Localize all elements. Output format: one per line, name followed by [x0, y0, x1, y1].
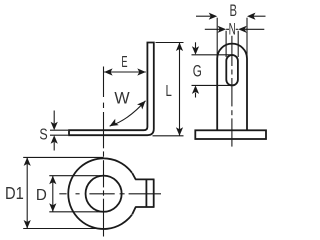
L bottom extension line — [153, 135, 184, 137]
B right extension line — [246, 18, 248, 57]
svg-text:E: E — [121, 52, 127, 70]
G lower arrow (pointing up) — [195, 93, 197, 98]
L top arrowhead — [176, 43, 183, 52]
S lower arrow (pointing up) — [53, 142, 55, 151]
W lower arrowhead — [110, 119, 119, 126]
N left arrow — [205, 28, 220, 30]
tab bottom edge — [135, 206, 154, 208]
dimension E line — [104, 71, 146, 73]
B left extension line — [216, 18, 218, 57]
D1 bottom extension line — [23, 228, 103, 230]
N right extension line — [237, 31, 239, 57]
G bottom extension line — [192, 84, 234, 86]
E left arrowhead — [104, 68, 113, 75]
D top arrowhead — [49, 176, 56, 185]
S upper arrow (pointing down) — [53, 111, 55, 124]
N line stubs — [226, 28, 229, 30]
bracket outline (L profile) — [69, 43, 154, 136]
svg-text:S: S — [39, 126, 47, 144]
tab outline (rounded top) — [217, 44, 247, 131]
D bottom arrowhead — [49, 203, 56, 212]
N right arrow — [245, 28, 264, 30]
bent tab near edge — [145, 179, 147, 207]
D1 top arrowhead — [24, 157, 31, 166]
centerline (vertical, through side view and top view) — [103, 67, 105, 237]
bent tab end edge — [153, 179, 155, 207]
B left arrow — [196, 15, 211, 17]
top chamfer to tab — [132, 173, 136, 179]
svg-text:W: W — [114, 88, 130, 107]
D1 bottom arrowhead — [24, 220, 31, 229]
D top extension line — [49, 175, 103, 177]
L top extension line — [156, 42, 184, 44]
horizontal centerline — [59, 193, 161, 195]
W curved leader — [110, 101, 146, 126]
slot (oblong hole) — [226, 55, 238, 85]
D dimension line — [52, 176, 54, 212]
G upper arrow (pointing down) — [195, 42, 197, 48]
S bottom extension line — [50, 134, 68, 136]
base plate — [195, 130, 266, 139]
outer circle (with tab opening) — [68, 158, 132, 229]
G top extension line — [192, 54, 234, 56]
L dimension line — [179, 43, 181, 136]
svg-text:L: L — [166, 82, 173, 99]
svg-text:D1: D1 — [5, 184, 24, 203]
B right arrow — [254, 15, 266, 17]
bottom chamfer to tab — [132, 207, 136, 214]
N left extension line — [225, 31, 227, 57]
svg-text:D: D — [36, 186, 47, 203]
E right arrowhead — [137, 68, 146, 75]
hole circle — [86, 176, 122, 212]
W upper arrowhead — [137, 101, 145, 110]
tab top edge — [135, 178, 154, 180]
svg-text:N: N — [229, 20, 236, 38]
D1 dimension line — [26, 157, 28, 228]
svg-text:G: G — [193, 61, 202, 79]
D bottom extension line — [49, 211, 103, 213]
svg-text:B: B — [229, 1, 236, 20]
front view centerline — [231, 36, 233, 147]
L bottom arrowhead — [176, 127, 183, 136]
S top extension line — [50, 129, 68, 131]
D1 top extension line — [23, 156, 103, 158]
